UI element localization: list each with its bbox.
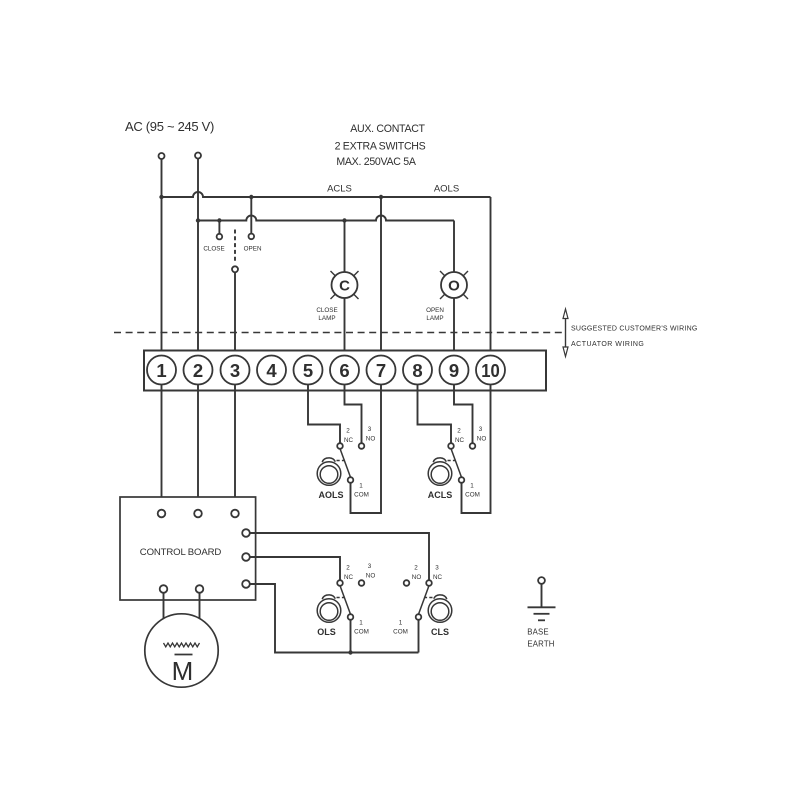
separator customer/actuator wiring (dashed) (114, 332, 562, 334)
limit switch ACLS roller (428, 462, 452, 486)
svg-text:3: 3 (479, 426, 483, 433)
wire terminal 3 to control board (234, 385, 236, 510)
terminal 3 (221, 356, 250, 385)
terminal 8 (403, 356, 432, 385)
wire open lamp to terminal 9 (453, 298, 455, 356)
terminal 7 (367, 356, 396, 385)
control board input terminal a (158, 510, 166, 518)
selector common contact (232, 266, 238, 272)
lamp C close lamp (332, 272, 358, 298)
svg-text:CONTROL BOARD: CONTROL BOARD (140, 547, 222, 558)
svg-text:1: 1 (470, 482, 474, 489)
limit switch OLS NO contact (359, 580, 365, 586)
wire OLS COM to common return (350, 620, 352, 653)
wire control board to OLS NC (250, 557, 340, 580)
terminal 1 (147, 356, 176, 385)
svg-text:BASE: BASE (527, 628, 549, 637)
contact OPEN (249, 234, 255, 240)
limit switch CLS NO contact (404, 580, 410, 586)
node junction line2 / CLOSE contact stub (217, 218, 221, 222)
wire line2 to close lamp (344, 221, 346, 273)
limit switch ACLS NO contact (470, 443, 476, 449)
svg-text:2: 2 (193, 360, 203, 381)
ground symbol bar 1 (528, 606, 556, 608)
svg-text:1: 1 (156, 360, 166, 381)
svg-text:ACLS: ACLS (428, 490, 453, 500)
wire OPEN contact branch from line1 (250, 197, 252, 234)
wire AC-N down to bus line 2 (197, 159, 199, 221)
selector switch actuator (dashed) (234, 230, 236, 264)
node junction line2 / AC-N (196, 218, 200, 222)
limit switch OLS lever (340, 586, 351, 615)
ground symbol bar 2 (534, 613, 550, 615)
svg-text:NO: NO (477, 436, 487, 443)
terminal 9 (440, 356, 469, 385)
limit switch AOLS NO contact (359, 443, 365, 449)
wire selector common to terminal 3 (234, 272, 236, 355)
motor overline (175, 654, 193, 656)
svg-text:9: 9 (449, 360, 459, 381)
svg-text:CLOSE: CLOSE (203, 246, 224, 253)
limit switch OLS roller (317, 599, 341, 623)
wire bus line 2 (with hops over OPEN branch and terminal-7 branch) (198, 216, 454, 221)
svg-text:NC: NC (344, 574, 354, 581)
wire CLOSE contact stub (218, 221, 220, 234)
svg-text:COM: COM (354, 491, 369, 498)
svg-text:COM: COM (354, 628, 369, 635)
svg-text:2: 2 (346, 428, 350, 435)
limit switch CLS NC contact (426, 580, 432, 586)
limit switch ACLS NC contact (448, 443, 454, 449)
svg-text:CLOSE: CLOSE (316, 307, 337, 314)
svg-text:COM: COM (465, 491, 480, 498)
wire control board to CLS NC (250, 533, 429, 580)
limit switch OLS COM contact (348, 614, 354, 620)
limit switch ACLS COM contact (459, 477, 465, 483)
control board motor terminal h (196, 585, 204, 593)
control board input terminal b (194, 510, 202, 518)
earth terminal (538, 577, 545, 584)
earth wire (541, 584, 543, 607)
svg-text:2: 2 (414, 565, 418, 572)
svg-text:LAMP: LAMP (318, 315, 335, 322)
svg-text:M: M (172, 656, 194, 686)
svg-text:2: 2 (457, 428, 461, 435)
svg-text:6: 6 (339, 360, 349, 381)
control board output terminal e (to OLS NC) (242, 553, 250, 561)
limit switch CLS COM contact (416, 614, 422, 620)
svg-text:8: 8 (412, 360, 422, 381)
svg-text:NO: NO (366, 573, 376, 580)
svg-text:1: 1 (399, 619, 403, 626)
terminal 2 (184, 356, 213, 385)
control board motor terminal g (160, 585, 168, 593)
limit switch AOLS mechanical link (dashed) (337, 460, 346, 462)
limit switch OLS mechanical link (dashed) (337, 597, 346, 599)
svg-text:5: 5 (303, 360, 313, 381)
svg-text:10: 10 (481, 360, 500, 381)
limit switch AOLS lever (340, 449, 351, 478)
arrow actuator wiring (down) (565, 333, 567, 350)
svg-text:LAMP: LAMP (426, 315, 443, 322)
svg-text:AOLS: AOLS (318, 490, 343, 500)
contact CLOSE (217, 234, 223, 240)
svg-text:3: 3 (435, 565, 439, 572)
wire line2 right end down to open lamp (453, 221, 455, 273)
svg-text:NC: NC (433, 574, 443, 581)
ground symbol bar 3 (538, 619, 545, 621)
terminal 4 (257, 356, 286, 385)
wire control board to motor lead 1 (163, 593, 165, 643)
limit switch CLS mechanical link (dashed) (424, 597, 433, 599)
wire terminal 5 to AOLS NC (308, 385, 340, 444)
limit switch OLS NC contact (337, 580, 343, 586)
svg-text:NC: NC (455, 437, 465, 444)
wire terminal 8 to ACLS NC (418, 385, 452, 444)
svg-text:AC (95 ~ 245 V): AC (95 ~ 245 V) (125, 119, 214, 134)
wire close lamp to terminal 6 (344, 298, 346, 356)
limit switch ACLS lever (451, 449, 462, 478)
svg-text:MAX. 250VAC 5A: MAX. 250VAC 5A (336, 156, 416, 168)
svg-text:NC: NC (344, 437, 354, 444)
limit switch AOLS NC contact (337, 443, 343, 449)
svg-text:2 EXTRA SWITCHS: 2 EXTRA SWITCHS (335, 141, 426, 153)
node junction line1 / AC-L (159, 195, 163, 199)
control board input terminal c (231, 510, 239, 518)
terminal AC line L (159, 153, 165, 159)
svg-text:ACLS: ACLS (327, 184, 352, 195)
control board box (120, 497, 256, 600)
svg-text:3: 3 (368, 563, 372, 570)
terminal block TB1 (144, 351, 546, 391)
wire terminal 1 to control board (161, 385, 163, 510)
limit switch AOLS roller (317, 462, 341, 486)
wire bus line 2 junction down to terminal 2 (197, 221, 199, 356)
svg-text:OPEN: OPEN (244, 246, 262, 253)
limit switch CLS lever (419, 586, 430, 615)
control board output terminal d (to CLS NC) (242, 529, 250, 537)
wire bus line 1 (with hop over AC-N wire) (162, 192, 491, 197)
wire control board to switches common return (250, 584, 419, 653)
wire control board to motor lead 2 (199, 593, 201, 643)
wire terminal 10 to ACLS COM (462, 385, 491, 514)
node junction line2 / close-lamp branch (342, 218, 346, 222)
svg-text:EARTH: EARTH (527, 640, 554, 649)
svg-text:ACTUATOR WIRING: ACTUATOR WIRING (571, 341, 644, 348)
terminal AC line N (195, 153, 201, 159)
svg-text:SUGGESTED CUSTOMER'S WIRING: SUGGESTED CUSTOMER'S WIRING (571, 326, 698, 333)
limit switch ACLS mechanical link (dashed) (448, 460, 457, 462)
svg-text:4: 4 (266, 360, 277, 381)
arrow suggested customers wiring (up) (565, 316, 567, 333)
svg-text:AOLS: AOLS (434, 184, 459, 195)
node junction OLS COM / common return (348, 650, 352, 654)
wire terminal 6 to AOLS NO (345, 385, 362, 444)
svg-text:1: 1 (359, 482, 363, 489)
wire terminal 2 to control board (197, 385, 199, 510)
wire AC-L down to terminal 1 (161, 159, 163, 355)
node junction line1 / OPEN contact branch (249, 195, 253, 199)
wire line1 down to terminal 7 (passes hop on line 2) (380, 197, 382, 356)
svg-text:3: 3 (230, 360, 240, 381)
svg-text:NO: NO (366, 436, 376, 443)
svg-text:O: O (448, 277, 460, 294)
wire terminal 7 to AOLS COM (351, 385, 382, 514)
wire line1 right end down to terminal 10 (490, 197, 492, 356)
svg-text:AUX. CONTACT: AUX. CONTACT (350, 123, 425, 135)
svg-text:NO: NO (412, 574, 422, 581)
motor M (145, 614, 218, 687)
svg-text:OPEN: OPEN (426, 307, 444, 314)
terminal 10 (476, 356, 505, 385)
lamp O open lamp (441, 272, 467, 298)
svg-text:3: 3 (368, 426, 372, 433)
svg-text:CLS: CLS (431, 627, 449, 637)
svg-text:7: 7 (376, 360, 386, 381)
svg-text:1: 1 (359, 619, 363, 626)
limit switch AOLS COM contact (348, 477, 354, 483)
motor winding (zigzag) (164, 643, 200, 647)
svg-text:COM: COM (393, 628, 408, 635)
svg-text:2: 2 (346, 565, 350, 572)
control board output terminal f (to common return) (242, 580, 250, 588)
wire terminal 9 to ACLS NO (454, 385, 473, 444)
wire CLS COM to common return (418, 620, 420, 653)
svg-text:C: C (339, 277, 350, 294)
terminal 5 (294, 356, 323, 385)
svg-text:OLS: OLS (317, 627, 336, 637)
limit switch CLS roller (428, 599, 452, 623)
terminal 6 (330, 356, 359, 385)
node junction line1 / terminal-7 branch (379, 195, 383, 199)
